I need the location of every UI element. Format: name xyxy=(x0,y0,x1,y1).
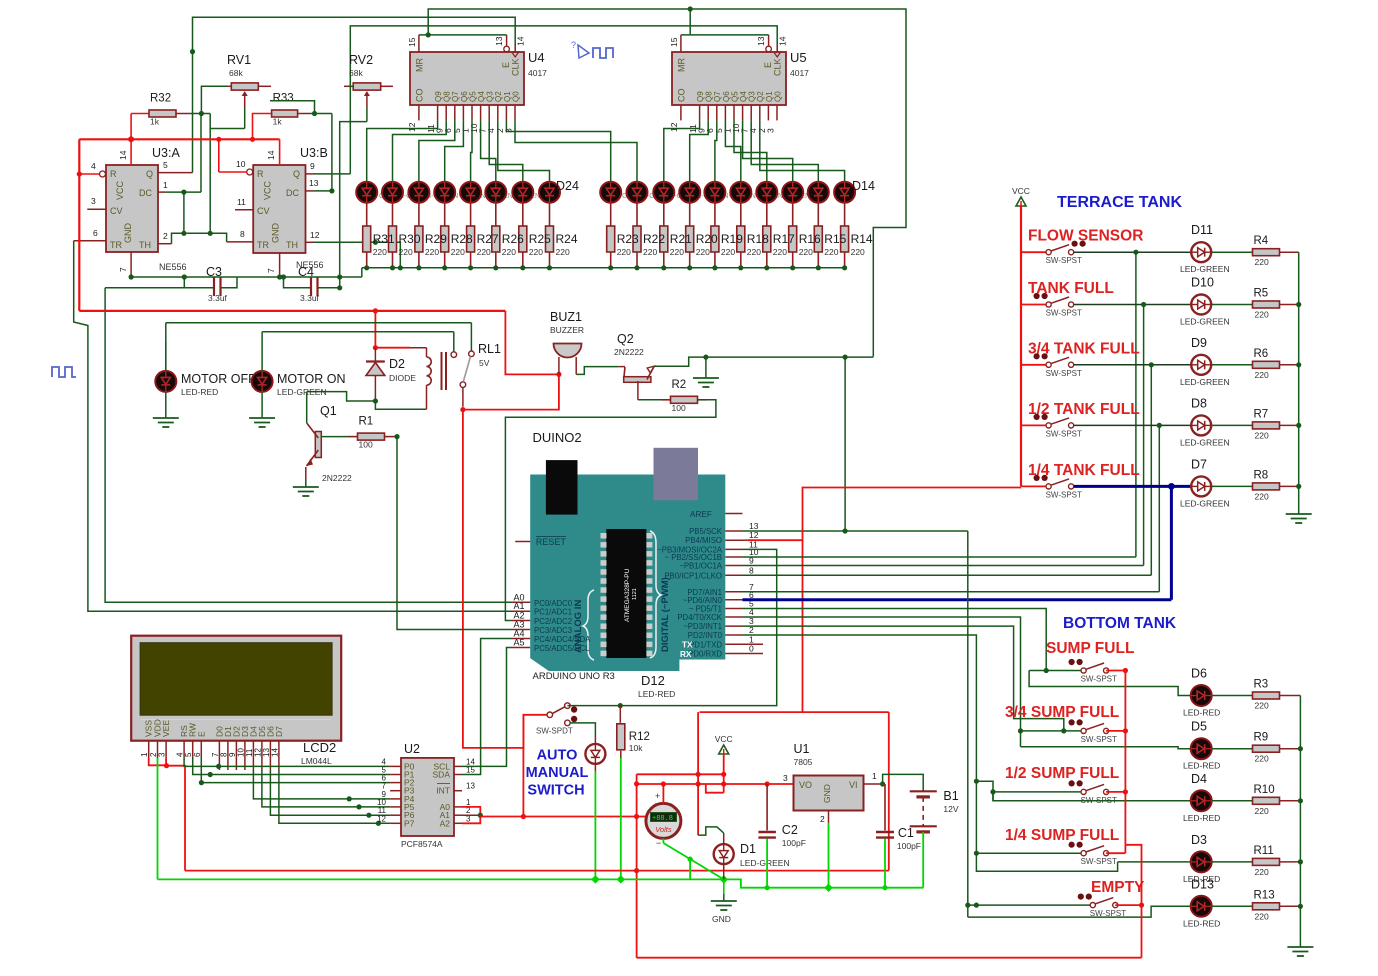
svg-text:R18: R18 xyxy=(747,232,769,246)
svg-text:220: 220 xyxy=(1255,911,1269,921)
pin 1 U4 xyxy=(471,105,473,120)
switch SW-SPST xyxy=(1046,250,1051,255)
wire bus to resistor bus link xyxy=(361,268,363,277)
svg-text:13: 13 xyxy=(494,36,504,46)
svg-text:ATMEGA328P-PU: ATMEGA328P-PU xyxy=(624,568,631,622)
pin A2 stub xyxy=(511,620,530,622)
svg-text:Q0: Q0 xyxy=(511,91,520,102)
svg-text:DUINO2: DUINO2 xyxy=(533,430,582,445)
svg-text:220: 220 xyxy=(643,247,657,257)
svg-text:TX: TX xyxy=(682,641,693,650)
svg-text:R15: R15 xyxy=(824,232,846,246)
switch SW-SPDT xyxy=(547,712,553,718)
resistor R29 xyxy=(415,226,423,252)
svg-text:R2: R2 xyxy=(672,379,687,391)
pin A4 stub xyxy=(511,638,530,640)
wire LED to R28 xyxy=(444,203,446,226)
svg-text:CLK: CLK xyxy=(773,58,783,76)
resistor R12 xyxy=(619,706,621,723)
svg-text:R23: R23 xyxy=(617,232,639,246)
svg-text:R6: R6 xyxy=(1254,348,1269,360)
Arduino power connector xyxy=(654,448,699,501)
pin 4 U5 xyxy=(759,105,761,120)
wire 1/4 row xyxy=(976,852,1081,854)
wire R14 to bus xyxy=(844,252,846,268)
svg-text:LED-RED: LED-RED xyxy=(1183,761,1220,771)
svg-text:R7: R7 xyxy=(1254,408,1269,420)
wire U5 MR drop xyxy=(689,9,691,35)
pin 5 Q U3:A xyxy=(158,172,193,174)
svg-text:100: 100 xyxy=(359,440,373,450)
wire LED to R30 xyxy=(392,203,394,226)
wire R27 to bus xyxy=(470,252,472,268)
LED D6 xyxy=(1191,685,1212,706)
svg-text:PC5/ADC5/SCL: PC5/ADC5/SCL xyxy=(534,644,590,653)
svg-text:PD2/INT0: PD2/INT0 xyxy=(688,631,723,640)
svg-text:RL1: RL1 xyxy=(478,342,501,356)
wire D8 to R7 xyxy=(1212,424,1253,426)
pin U1 GND xyxy=(828,811,830,823)
svg-text:D11: D11 xyxy=(1191,223,1213,237)
wire LED lime down xyxy=(594,771,596,879)
wire R5 to gnd bus xyxy=(1280,304,1299,306)
Arduino USB connector xyxy=(546,460,578,514)
resistor R30 xyxy=(389,226,397,252)
svg-text:PB0/ICP1/CLKO: PB0/ICP1/CLKO xyxy=(664,571,722,580)
svg-text:GND: GND xyxy=(271,223,281,244)
wire R25 to bus xyxy=(522,252,524,268)
svg-text:CV: CV xyxy=(257,206,270,216)
svg-text:13: 13 xyxy=(466,782,475,791)
svg-text:R20: R20 xyxy=(696,232,718,246)
ground xyxy=(165,411,167,418)
wire switch to D11 xyxy=(1074,251,1191,253)
IO expander U2 PCF8574A xyxy=(401,758,454,836)
diode D2 xyxy=(374,348,376,361)
svg-text:D10: D10 xyxy=(1191,276,1214,290)
svg-text:220: 220 xyxy=(1255,491,1269,501)
switch SW-SPST xyxy=(1090,903,1095,908)
svg-text:ARDUINO UNO R3: ARDUINO UNO R3 xyxy=(533,671,615,682)
svg-text:7: 7 xyxy=(118,267,128,272)
svg-text:+88.8: +88.8 xyxy=(652,815,673,823)
wire lime bus xyxy=(158,878,724,880)
LED D12 xyxy=(782,182,803,203)
svg-text:15: 15 xyxy=(669,37,679,47)
pin 10 R U3:B xyxy=(247,169,253,175)
U2 pin P1 xyxy=(390,774,401,776)
svg-text:14: 14 xyxy=(118,150,128,160)
svg-text:220: 220 xyxy=(1255,370,1269,380)
svg-text:TH: TH xyxy=(139,240,151,250)
wire SUMP feed D6 xyxy=(1029,671,1191,696)
svg-text:DC: DC xyxy=(286,188,299,198)
resistor R1 xyxy=(349,436,358,438)
wire R9 to bus xyxy=(1280,748,1301,750)
pin 13 E U4 xyxy=(504,46,510,52)
pin 13 stub xyxy=(725,530,742,532)
wire D13 feed xyxy=(968,906,1191,917)
resistor R19 xyxy=(711,226,719,252)
svg-text:EMPTY: EMPTY xyxy=(1091,879,1145,896)
wire MR-E U5 xyxy=(681,34,769,36)
U2 pin P7 xyxy=(390,822,401,824)
svg-text:LED-RED: LED-RED xyxy=(181,387,218,397)
wire D5 to R9 xyxy=(1212,748,1253,750)
svg-text:R21: R21 xyxy=(670,232,692,246)
wire red rows power xyxy=(637,773,724,775)
svg-text:12: 12 xyxy=(407,122,417,132)
wire LED to R17 xyxy=(766,203,768,226)
ground xyxy=(1298,507,1300,514)
svg-text:R28: R28 xyxy=(451,232,473,246)
svg-text:D8: D8 xyxy=(1191,396,1207,410)
wire VEE red down xyxy=(167,766,186,871)
wire red sump stubs xyxy=(1106,670,1125,672)
capacitor C4 xyxy=(284,277,312,288)
svg-text:R31: R31 xyxy=(373,232,395,246)
svg-text:R24: R24 xyxy=(556,232,578,246)
svg-text:4: 4 xyxy=(91,161,96,171)
svg-text:220: 220 xyxy=(747,247,761,257)
svg-text:SW-SPST: SW-SPST xyxy=(1046,309,1082,318)
Arduino DUINO2 board xyxy=(530,475,725,672)
U2 pin A0 xyxy=(454,806,462,808)
svg-text:PC4/ADC4/SDA: PC4/ADC4/SDA xyxy=(534,635,591,644)
wire VDD lime xyxy=(157,758,159,879)
pin 3 U4 xyxy=(514,105,516,120)
pin 11 stub xyxy=(725,548,742,550)
pin0 stub xyxy=(743,653,764,655)
pin 3 CV U3:A xyxy=(87,208,106,210)
relay RL1 coil xyxy=(426,348,428,357)
wire pin13 empty feed xyxy=(967,531,969,917)
resistor R12 xyxy=(617,724,625,750)
svg-text:Q1: Q1 xyxy=(320,404,337,418)
svg-text:D1: D1 xyxy=(740,842,756,856)
pin 1 U5 xyxy=(733,105,735,120)
LED D13 xyxy=(808,182,829,203)
wire LED resistor bus xyxy=(362,267,845,269)
svg-text:+: + xyxy=(655,791,660,801)
LED D8 xyxy=(1191,415,1211,435)
wire buzzer right xyxy=(575,357,577,374)
LED D19 xyxy=(408,182,429,203)
svg-text:U4: U4 xyxy=(528,50,545,65)
LED D6 xyxy=(627,182,648,203)
resistor R25 xyxy=(519,226,527,252)
wire U3B R pin to rail xyxy=(218,139,220,172)
waveform glyph left xyxy=(52,367,76,377)
svg-text:~PD3/INT1: ~PD3/INT1 xyxy=(683,622,722,631)
pin 2 U5 xyxy=(767,105,769,120)
svg-text:LED-GREEN: LED-GREEN xyxy=(740,858,790,868)
pin A0 stub xyxy=(511,601,530,603)
volt meter xyxy=(646,803,681,838)
switch SW-SPST xyxy=(1081,668,1086,673)
pin 2 TH U3:A xyxy=(158,243,172,245)
svg-text:R14: R14 xyxy=(851,232,873,246)
LED D5 xyxy=(1191,738,1212,759)
svg-text:220: 220 xyxy=(556,247,570,257)
U2 pin P4 xyxy=(390,798,401,800)
pin 3 stub xyxy=(725,625,742,627)
svg-text:SDA: SDA xyxy=(433,770,451,780)
wire RV1 wiper to staircase xyxy=(244,108,246,129)
wire Q1 base to R1 xyxy=(321,436,350,438)
wire blue vertical xyxy=(1170,486,1173,599)
capacitor C3 xyxy=(105,287,214,289)
svg-text:68k: 68k xyxy=(349,68,363,78)
wire R30 to bus xyxy=(392,252,394,268)
svg-text:15: 15 xyxy=(407,37,417,47)
wire LED to R26 xyxy=(495,203,497,226)
pin 6 U4 xyxy=(454,105,456,120)
battery B1 xyxy=(883,774,924,791)
wire R16 to bus xyxy=(792,252,794,268)
svg-text:13: 13 xyxy=(309,178,319,188)
pin 11 CV U3:B xyxy=(235,209,253,211)
wire D2 to coil bottom xyxy=(375,401,426,409)
svg-text:R5: R5 xyxy=(1254,288,1269,300)
wire R33net to DC U3:B xyxy=(331,114,333,191)
svg-text:PD0/RXD: PD0/RXD xyxy=(688,650,722,659)
svg-text:4017: 4017 xyxy=(790,68,809,78)
pin AREF xyxy=(725,513,742,515)
svg-text:R25: R25 xyxy=(529,232,551,246)
svg-text:100: 100 xyxy=(672,403,686,413)
pin 6 TR U3:A xyxy=(74,240,106,242)
wire 1/2 row xyxy=(993,791,1081,793)
svg-text:14: 14 xyxy=(266,150,276,160)
wire U1 gnd lime xyxy=(828,823,830,888)
svg-text:D7: D7 xyxy=(1191,457,1207,471)
svg-text:1: 1 xyxy=(140,752,149,757)
wire SUMP row xyxy=(1029,670,1046,672)
ground MOTOR OFF xyxy=(165,392,167,411)
wire LED to R15 xyxy=(817,203,819,226)
svg-text:3: 3 xyxy=(765,128,775,133)
switch SW-SPST xyxy=(1081,789,1086,794)
ground xyxy=(261,411,263,418)
svg-text:220: 220 xyxy=(696,247,710,257)
ground xyxy=(723,894,725,901)
svg-text:RESET: RESET xyxy=(536,537,567,547)
svg-text:CO: CO xyxy=(677,89,687,103)
svg-text:220: 220 xyxy=(399,247,413,257)
wire R22 to bus xyxy=(636,252,638,268)
svg-text:E: E xyxy=(501,62,511,68)
svg-text:AREF: AREF xyxy=(690,510,712,519)
svg-text:10k: 10k xyxy=(629,743,643,753)
svg-text:BUZ1: BUZ1 xyxy=(550,310,582,324)
svg-text:GND: GND xyxy=(123,223,133,244)
LED D4 xyxy=(1191,790,1212,811)
wire B1 bottom lime xyxy=(922,832,924,888)
wire LED to R20 xyxy=(689,203,691,226)
svg-text:MR: MR xyxy=(677,58,687,72)
svg-text:U2: U2 xyxy=(404,742,420,756)
wire pin13 row xyxy=(743,530,968,532)
svg-text:68k: 68k xyxy=(229,68,243,78)
svg-text:1k: 1k xyxy=(273,117,283,127)
svg-text:5: 5 xyxy=(163,160,168,170)
pin 14 VCC U3:A xyxy=(130,114,132,166)
svg-text:R13: R13 xyxy=(1254,889,1275,901)
svg-text:A5: A5 xyxy=(514,638,525,648)
pin A3 stub xyxy=(511,629,530,631)
svg-text:2N2222: 2N2222 xyxy=(322,473,352,483)
LED D10 xyxy=(730,182,751,203)
svg-text:PB5/SCK: PB5/SCK xyxy=(689,527,723,536)
wire D13 to R13 xyxy=(1212,905,1253,907)
resistor R15 xyxy=(814,226,822,252)
wire LED to R14 xyxy=(844,203,846,226)
wire U5 fan to LEDs xyxy=(664,120,700,181)
wire D6 to R3 xyxy=(1212,695,1253,697)
wire pin2 row xyxy=(743,635,1118,871)
wire U3A Q to U4 CLK xyxy=(193,17,516,172)
timer U3:B xyxy=(253,165,305,253)
wire R13 to bus xyxy=(1280,905,1301,907)
pin 12 CO U4 xyxy=(418,105,420,120)
U2 pin P3 xyxy=(390,790,401,792)
LED MOTOR OFF xyxy=(165,323,167,331)
regulator U1 7805 xyxy=(794,776,864,811)
svg-text:220: 220 xyxy=(451,247,465,257)
svg-text:~PB1/OC1A: ~PB1/OC1A xyxy=(679,562,722,571)
wire 1/2 feed D4 xyxy=(993,792,1191,801)
svg-text:Volts: Volts xyxy=(655,825,672,834)
wire pin8 row xyxy=(743,574,1152,576)
svg-text:D12: D12 xyxy=(641,673,665,688)
transistor Q2 xyxy=(619,366,625,368)
wire red row to U1 xyxy=(637,783,794,785)
svg-text:RV1: RV1 xyxy=(227,53,251,67)
svg-text:VO: VO xyxy=(799,780,812,790)
svg-text:CO: CO xyxy=(415,89,425,103)
svg-text:U3:A: U3:A xyxy=(152,146,180,160)
svg-text:R1: R1 xyxy=(359,416,374,428)
potentiometer RV1 xyxy=(227,85,231,87)
U2 pin P0 xyxy=(390,765,401,767)
wire MOTOR OFF top xyxy=(165,331,167,371)
pin 7 stub xyxy=(725,591,742,593)
svg-text:100pF: 100pF xyxy=(897,841,921,851)
wire R6 to gnd bus xyxy=(1280,364,1299,366)
wire D2 bottom node xyxy=(373,398,378,403)
svg-text:E: E xyxy=(763,62,773,68)
svg-text:1/4 SUMP FULL: 1/4 SUMP FULL xyxy=(1005,827,1119,844)
svg-text:VCC: VCC xyxy=(263,180,273,200)
svg-text:TERRACE TANK: TERRACE TANK xyxy=(1057,194,1182,211)
svg-text:12: 12 xyxy=(310,230,320,240)
wire C1 bottom lime xyxy=(884,838,886,887)
wire sump gnd bus xyxy=(1299,696,1301,941)
svg-text:E: E xyxy=(196,731,206,737)
wire red buzzer corner xyxy=(505,311,559,375)
svg-text:VCC: VCC xyxy=(715,734,733,744)
svg-text:D24: D24 xyxy=(556,179,579,193)
buzzer BUZ1 xyxy=(554,344,582,358)
relay core bars xyxy=(441,352,443,390)
pin U1 VI xyxy=(863,783,882,785)
wire 3/4 row xyxy=(1021,730,1082,732)
wire D3 to R11 xyxy=(1212,861,1253,863)
ground xyxy=(705,371,707,378)
pin 11 U4 xyxy=(437,105,439,120)
svg-text:12: 12 xyxy=(377,814,386,823)
resistor R28 xyxy=(441,226,449,252)
svg-text:PC0/ADC0: PC0/ADC0 xyxy=(534,599,573,608)
LED D18 xyxy=(382,182,403,203)
U2 pin SDA xyxy=(454,774,462,776)
wire vcc stub 1/4 TANK FULL xyxy=(1021,485,1046,487)
pin 10 stub xyxy=(725,556,742,558)
svg-text:R26: R26 xyxy=(502,232,524,246)
svg-text:PC1/ADC1: PC1/ADC1 xyxy=(534,608,572,617)
LED MOTOROFF xyxy=(155,371,176,392)
svg-text:SW-SPDT: SW-SPDT xyxy=(536,727,573,736)
pin 3 U5 xyxy=(776,105,778,120)
wire pin5 row xyxy=(743,609,1047,671)
wire LED to R16 xyxy=(792,203,794,226)
resistor R33 xyxy=(271,113,273,115)
svg-text:R16: R16 xyxy=(799,232,821,246)
wire vertical to pin row xyxy=(1143,305,1145,566)
pin A5 stub xyxy=(511,647,530,649)
wire red buzzer to relay node xyxy=(463,374,559,409)
wire pin9 row xyxy=(743,565,1144,567)
svg-text:MR: MR xyxy=(415,58,425,72)
svg-text:D4: D4 xyxy=(1191,772,1207,786)
svg-text:1/2 SUMP FULL: 1/2 SUMP FULL xyxy=(1005,765,1119,782)
svg-text:6: 6 xyxy=(193,752,202,757)
svg-text:SW-SPST: SW-SPST xyxy=(1081,735,1117,744)
svg-text:SW-SPST: SW-SPST xyxy=(1046,490,1082,499)
svg-text:R22: R22 xyxy=(643,232,665,246)
resistor R10 xyxy=(1253,797,1280,804)
wire U4 fan to LEDs xyxy=(367,120,438,181)
svg-text:PB4/MISO: PB4/MISO xyxy=(685,536,722,545)
svg-text:220: 220 xyxy=(617,247,631,257)
switch SW-SPST xyxy=(1081,728,1086,733)
wire red EMPTY stub xyxy=(1115,904,1141,906)
wire LED to R29 xyxy=(418,203,420,226)
svg-text:CV: CV xyxy=(110,206,123,216)
svg-text:3.3uf: 3.3uf xyxy=(208,293,228,303)
wire vcc stub 3/4 TANK FULL xyxy=(1021,364,1046,366)
pin 1 DC U3:A xyxy=(158,191,165,193)
wire C2 bottom lime xyxy=(766,838,768,887)
svg-text:SW-SPST: SW-SPST xyxy=(1081,857,1117,866)
LED DSW xyxy=(585,744,605,764)
pin 9 Q U3:B xyxy=(306,173,314,175)
wire R1 right node xyxy=(394,436,398,438)
svg-text:220: 220 xyxy=(1255,257,1269,267)
svg-text:220: 220 xyxy=(502,247,516,257)
svg-text:R4: R4 xyxy=(1254,235,1269,247)
wire TR-to-A1 column xyxy=(74,241,511,612)
resistor R4 xyxy=(1253,249,1280,256)
resistor R5 xyxy=(1253,301,1280,308)
svg-text:2N2222: 2N2222 xyxy=(614,347,644,357)
svg-text:U1: U1 xyxy=(794,742,810,756)
pin 1 stub xyxy=(725,643,742,645)
resistor R3 xyxy=(1253,692,1280,699)
wire R24 to bus xyxy=(549,252,551,268)
wire SPDT lower throw to LED xyxy=(570,723,595,735)
